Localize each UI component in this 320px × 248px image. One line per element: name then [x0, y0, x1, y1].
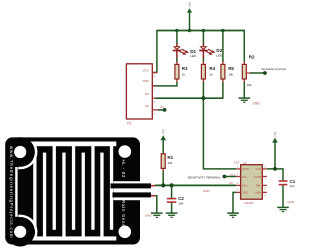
sensor trace arc bottom-left [18, 216, 36, 239]
svg-text:INB+: INB+ [255, 191, 261, 195]
pin 3 GND [152, 85, 156, 87]
power terminal +5V top [187, 1, 192, 31]
svg-text:10k: 10k [228, 72, 233, 76]
svg-text:10k: 10k [167, 161, 172, 165]
potentiometer R2 [242, 54, 255, 86]
resistor R1 [161, 153, 173, 172]
svg-text:2: 2 [154, 101, 156, 104]
sensor corner black zones [6, 137, 35, 166]
sensor terminal tab 2 [113, 192, 152, 197]
node sensitivity terminal [263, 71, 267, 75]
sensor white margin top [29, 142, 117, 147]
svg-text:VCC: VCC [143, 69, 149, 73]
wire A0 net: sensor to U1 INA+ [155, 184, 236, 186]
wire sensor pin2 to ground [155, 196, 157, 213]
svg-text:OUTA: OUTA [242, 167, 249, 171]
power terminal +5V right [272, 131, 278, 169]
svg-text:2: 2 [237, 173, 239, 176]
pin 5 INB+ [262, 191, 267, 193]
svg-text:1: 1 [237, 165, 239, 168]
svg-text:C1: C1 [290, 179, 296, 184]
node junction bus/D1 [175, 29, 179, 33]
sensitivity terminal node at U1 INA- [223, 175, 227, 179]
svg-text:SENSITIVITY TERMINAL: SENSITIVITY TERMINAL [188, 175, 221, 179]
wire bus to D2 [202, 31, 204, 44]
capacitor C2 [167, 185, 184, 212]
svg-text:6: 6 [264, 187, 266, 190]
ground for rain sensor [151, 213, 163, 217]
power terminal +5V at R1 [160, 128, 166, 154]
svg-text:5: 5 [264, 194, 266, 197]
rain sensor board [5, 137, 140, 244]
svg-text:INA+: INA+ [242, 184, 248, 188]
svg-text:GND: GND [142, 79, 148, 83]
wire R5 down to D0 net corner [222, 82, 224, 98]
pin 1 OUTA [236, 168, 240, 170]
wire U1 VCC to power and C1 [267, 169, 283, 180]
svg-text:GND: GND [287, 200, 295, 204]
svg-text:+5V: +5V [188, 1, 192, 8]
sensor mounting holes [14, 146, 26, 158]
wire D0 net down to U1 OUTA [203, 98, 236, 169]
svg-text:OUT: OUT [234, 161, 240, 165]
resistor R3 [175, 61, 188, 82]
capacitor C1 [279, 179, 296, 207]
svg-text:104: 104 [178, 201, 183, 205]
pin 6 INB- [262, 184, 267, 186]
svg-text:1: 1 [154, 113, 156, 116]
node junction D0/R4 [201, 96, 205, 100]
wire top VCC bus [157, 30, 244, 32]
node junction C2/A0 net [170, 183, 174, 187]
sensor trace arc top-left [18, 145, 36, 168]
wire bus to R5 [222, 31, 224, 63]
op-amp U1 LM393 [236, 161, 267, 205]
wire P1 A0 to terminal [157, 109, 164, 111]
svg-text:10k: 10k [247, 83, 252, 87]
resistor R4 [201, 61, 215, 82]
LED D1 [173, 44, 197, 59]
svg-text:R1: R1 [167, 155, 173, 160]
pin 4 VCC [152, 72, 157, 74]
svg-text:U1: U1 [243, 161, 247, 165]
svg-text:7: 7 [264, 179, 266, 182]
svg-text:3: 3 [237, 182, 239, 185]
wire R1 down to A0 net [162, 172, 164, 186]
svg-text:INA-: INA- [242, 175, 247, 179]
wire D0 net: P1 D0 to R5, R4 junction [156, 97, 224, 99]
svg-text:VCC: VCC [255, 167, 261, 171]
svg-text:C2: C2 [178, 196, 184, 201]
rain sensor module [5, 137, 151, 246]
ground under C1 [277, 207, 289, 211]
ground under U1 [227, 213, 239, 217]
svg-text:GND: GND [203, 189, 211, 193]
sensor pin stubs [151, 185, 155, 187]
svg-text:1k: 1k [209, 72, 213, 76]
pin 2 D0 [152, 97, 156, 99]
svg-text:LM393: LM393 [244, 201, 254, 205]
ground under R2 [239, 98, 251, 102]
sensor trace left vertical [15, 167, 17, 217]
svg-text:INB-: INB- [256, 184, 261, 188]
wire R3 to P1 GND pin [153, 82, 177, 86]
svg-text:P1: P1 [127, 122, 131, 126]
svg-text:HL - 83: HL - 83 [121, 160, 126, 178]
wire D1 to R3 [176, 58, 178, 62]
ground under C2 [166, 213, 178, 217]
wire R2 to ground [243, 82, 245, 98]
svg-text:R3: R3 [182, 66, 188, 71]
node junction bus/power [188, 29, 192, 33]
resistor R5 [221, 61, 235, 82]
svg-text:10u: 10u [290, 184, 295, 188]
svg-text:D0: D0 [145, 92, 149, 96]
node junction bus/R5 [221, 29, 225, 33]
svg-text:+5V: +5V [273, 131, 277, 138]
wire U1 GND pin to ground [233, 192, 236, 212]
sensor white margin bottom [29, 236, 117, 240]
svg-text:R2: R2 [249, 54, 255, 59]
svg-text:A0: A0 [229, 181, 233, 185]
svg-text:8: 8 [264, 165, 266, 168]
connector P1 [126, 64, 157, 126]
svg-text:Rain Sensor: Rain Sensor [121, 200, 126, 232]
svg-text:GND: GND [242, 191, 248, 195]
svg-text:GND: GND [145, 213, 153, 217]
svg-text:1k: 1k [182, 72, 186, 76]
node junction bus/D2 [202, 29, 206, 33]
node junction power/VCC [273, 167, 277, 171]
wire D2 to R4 [202, 58, 204, 62]
wire bus to D1 [176, 31, 178, 44]
wire R4 down to D0 net [202, 82, 204, 98]
pin 7 OUTB [262, 176, 267, 178]
pin 3 INA+ [236, 184, 240, 186]
sensor serpentine white gaps [33, 142, 36, 230]
svg-text:4: 4 [154, 75, 156, 78]
svg-text:D2: D2 [216, 48, 222, 53]
svg-text:R5: R5 [228, 66, 234, 71]
svg-text:Sensitivity terminal: Sensitivity terminal [262, 67, 286, 71]
wire bus to R2 [243, 30, 245, 62]
pin 8 VCC [262, 168, 267, 170]
node junction R1/A0 net [161, 183, 165, 187]
wire sensitivity terminal to U1 INA- [224, 176, 236, 178]
wire bus to P1 VCC pin [153, 30, 157, 73]
svg-text:+5V: +5V [162, 128, 166, 135]
svg-text:R4: R4 [209, 66, 215, 71]
pin 2 INA- [236, 176, 240, 178]
pin 4 GND [236, 191, 240, 193]
sensor connector slot [113, 181, 140, 200]
svg-text:A0: A0 [160, 105, 164, 109]
wire R2 wiper to sensitivity terminal [250, 72, 265, 74]
svg-text:IN 2: IN 2 [230, 173, 235, 177]
svg-text:OUTB: OUTB [254, 175, 262, 179]
svg-text:LED: LED [190, 54, 197, 58]
svg-text:4: 4 [237, 189, 239, 192]
svg-text:A0: A0 [145, 104, 149, 108]
svg-text:LED: LED [216, 53, 223, 57]
LED D2 [199, 44, 223, 59]
svg-text:www.TheEngineeringProjects.com: www.TheEngineeringProjects.com [9, 146, 14, 238]
sensor terminal tab 1 [111, 183, 152, 188]
pin 1 A0 [152, 109, 157, 111]
svg-text:3: 3 [154, 89, 156, 92]
node terminal A0 [163, 108, 167, 112]
svg-text:GND: GND [253, 102, 261, 106]
